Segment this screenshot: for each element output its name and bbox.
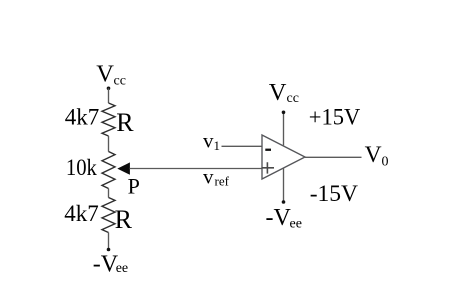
wire R1 to potentiometer [108,136,110,152]
svg-text:10k: 10k [66,155,97,180]
resistor R2 4k7 (zigzag) [102,198,115,233]
svg-text:R: R [115,205,133,234]
potentiometer 10k (zigzag) [102,152,115,189]
svg-text:cc: cc [287,91,299,106]
node Vcc (left rail top dot) [107,87,111,91]
svg-text:-15V: -15V [310,181,358,207]
svg-text:v: v [203,164,214,188]
svg-text:4k7: 4k7 [64,201,99,226]
svg-text:4k7: 4k7 [65,104,100,129]
wire op-amp output [305,156,362,158]
wire -Vee supply to op-amp [283,168,285,202]
svg-text:1: 1 [214,138,221,153]
svg-text:-V: -V [266,205,292,231]
node -Vee (left rail bottom dot) [107,248,111,252]
svg-text:R: R [116,108,134,137]
svg-text:ee: ee [290,217,302,232]
svg-text:v: v [203,129,214,153]
node Vcc (op-amp supply dot) [282,111,286,115]
svg-text:V: V [365,142,382,168]
svg-text:0: 0 [382,155,389,170]
svg-text:ref: ref [215,174,230,189]
wire Vcc supply to op-amp [283,112,285,145]
svg-text:ee: ee [116,261,128,276]
wire v1 to op-amp inverting input [222,145,263,147]
svg-text:cc: cc [114,74,126,89]
svg-text:+15V: +15V [309,105,361,131]
resistor R1 4k7 (zigzag) [102,103,115,136]
wiper arrow P [117,162,130,174]
svg-text:V: V [269,79,287,106]
wire potentiometer to R2 [108,189,110,198]
svg-text:V: V [96,61,114,88]
wire P wiper to op-amp non-inverting input (vref net) [130,168,263,170]
wire R2 to -Vee [108,233,110,250]
op-amp U1 (triangle) [262,135,305,179]
op-amp non-inverting input marker + [262,162,275,173]
wire Vcc to R1 [108,88,110,103]
svg-text:P: P [128,174,140,199]
node -Vee (op-amp supply dot) [282,200,286,204]
op-amp inverting input marker - [265,149,271,151]
